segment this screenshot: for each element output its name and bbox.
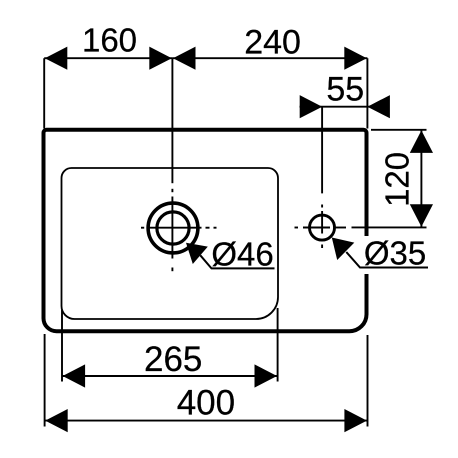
faucet centerline vertical [171, 132, 173, 272]
leader arrow Ø35 [332, 238, 355, 261]
svg-text:160: 160 [82, 21, 137, 58]
dimension line 400 [45, 420, 368, 422]
faucet centerline horizontal [141, 227, 217, 229]
leader arrow Ø46 [186, 243, 208, 264]
arrow 240 right [344, 47, 367, 70]
dimension line 55 [300, 106, 390, 108]
tap hole centerline vertical [321, 205, 323, 249]
svg-text:55: 55 [326, 71, 364, 109]
leader line Ø46 [200, 255, 274, 268]
inner bowl outline [62, 168, 279, 319]
washbasin outer outline [44, 130, 367, 331]
white mask behind Ø35 label [358, 236, 430, 274]
arrow 240 left [173, 47, 196, 70]
arrow 400 right [344, 409, 367, 432]
dimension 160 extension line left [43, 58, 45, 128]
extension line at tap hole axis (55) [321, 107, 323, 194]
arrow 400 left [45, 409, 67, 432]
arrow 265 right [255, 364, 278, 387]
svg-text:Ø46: Ø46 [211, 236, 273, 273]
svg-text:240: 240 [244, 24, 301, 62]
dimension line 240 [172, 57, 367, 59]
dimension line 265 [62, 375, 278, 377]
arrow 160 left [45, 47, 68, 70]
dimension line 160 [44, 57, 172, 59]
arrow 265 left [63, 364, 86, 387]
arrow 120 bottom [410, 204, 433, 227]
tap hole circle (Ø35) [310, 215, 335, 240]
extension line 265 left [61, 310, 63, 382]
svg-text:265: 265 [144, 340, 202, 379]
tap hole centerline horizontal [295, 227, 347, 229]
svg-text:Ø35: Ø35 [364, 235, 426, 272]
arrow 160 right [149, 47, 172, 70]
extension line 400 left [44, 334, 46, 427]
arrow 120 top [410, 130, 433, 153]
faucet hole outer circle [148, 203, 198, 253]
faucet hole inner circle (Ø46) [157, 212, 189, 244]
extension line 265 right [277, 308, 279, 382]
extension line 400 right [367, 335, 369, 427]
svg-text:400: 400 [177, 384, 235, 423]
shared extension line at faucet axis [171, 58, 173, 129]
svg-text:120: 120 [378, 152, 415, 207]
dimension line 120 [420, 130, 422, 228]
arrow 55 right (outside, pointing left) [367, 95, 390, 118]
extension line 120 top [371, 129, 427, 131]
extension line 120 bottom [352, 226, 427, 228]
extension line at basin right edge (240/55) [366, 58, 368, 128]
leader line Ø35 [346, 252, 428, 268]
arrow 55 left (outside, pointing right) [300, 95, 323, 118]
